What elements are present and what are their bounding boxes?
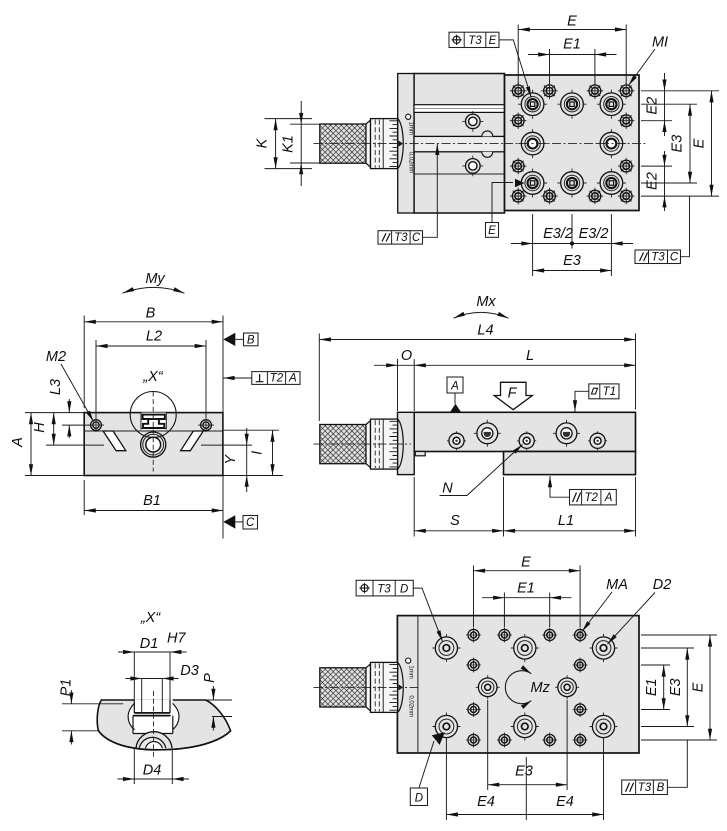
front view: gib lines (84, 444, 223, 446)
bottom view: small holes row3 (466, 702, 588, 717)
svg-text:E1: E1 (563, 37, 581, 53)
svg-text:„X“: „X“ (140, 610, 162, 626)
top view plate: big hole row3 col2 (558, 169, 587, 198)
bottom view: flange line (417, 616, 419, 753)
label M2 + leader (46, 349, 94, 422)
dimension L1 (504, 477, 636, 537)
label MA + leader (582, 577, 628, 632)
svg-text:E: E (488, 225, 496, 237)
dimension B (84, 305, 223, 538)
bottom view: small holes row2 (466, 658, 588, 673)
feature frame parallel T2 A + leader (550, 476, 616, 505)
label N + leader (440, 445, 523, 497)
bottom view: small holes row4 (466, 733, 588, 748)
dimension E (bottom view right) (691, 635, 711, 740)
svg-text:C: C (670, 252, 679, 264)
svg-text:A: A (10, 437, 26, 448)
dimension E (bottom view top) (474, 555, 581, 628)
dimension E (top view right) (692, 91, 712, 196)
svg-text:Y: Y (223, 454, 239, 465)
dimension B1 (84, 480, 223, 515)
svg-text:T3: T3 (377, 583, 391, 595)
svg-text:B: B (146, 305, 156, 321)
svg-text:My: My (145, 271, 165, 287)
svg-text:E3: E3 (563, 253, 581, 269)
side view: step block (415, 452, 425, 456)
front view: hole M2 left (88, 418, 104, 432)
svg-text:K1: K1 (281, 135, 297, 153)
detail X: nut body (97, 700, 230, 750)
svg-text:E: E (521, 555, 531, 571)
detail X: spring arch (99, 731, 231, 750)
svg-text:E2: E2 (645, 172, 661, 190)
top view plate: big hole mid right (597, 129, 626, 158)
svg-text:N: N (442, 481, 453, 497)
svg-text:E3/2: E3/2 (579, 226, 609, 242)
side view: mounting flange (398, 412, 415, 474)
svg-text:E3: E3 (670, 135, 686, 153)
svg-text:E3/2: E3/2 (543, 226, 573, 242)
svg-text:C: C (246, 517, 255, 529)
datum flag C (223, 515, 257, 529)
side view: table slab (414, 412, 635, 451)
svg-text:E: E (691, 682, 707, 692)
top view plate: big hole row3 col3 (597, 169, 626, 198)
front view: dovetail top line (84, 430, 223, 432)
top view: stage body (414, 74, 505, 214)
dimension H (32, 413, 84, 446)
side view: big holes (474, 420, 580, 447)
svg-text:E1: E1 (517, 581, 535, 597)
svg-text:T3: T3 (394, 232, 408, 244)
dimension E3 (top view right) (670, 104, 691, 183)
dimension E3 (bottom view bottom) (488, 700, 567, 790)
top view plate: big hole row3 col1 (518, 169, 547, 198)
detail X: centre line (153, 691, 155, 758)
top view: body hole lower (462, 156, 483, 177)
top view plate: small holes row4 (510, 188, 635, 205)
svg-text:S: S (450, 513, 460, 529)
label MI + leader (629, 35, 669, 86)
svg-text:E3: E3 (668, 678, 684, 696)
bottom view: big holes row top (432, 634, 617, 662)
svg-text:Mx: Mx (476, 294, 496, 310)
svg-text:F: F (508, 386, 518, 402)
side view: micrometer cap (398, 419, 404, 469)
svg-text:I: I (250, 451, 266, 455)
datum target E box + leader (486, 179, 525, 238)
top view plate: big hole row1 col3 (597, 90, 626, 119)
feature frame position T3 E (449, 32, 531, 97)
top view: guide slot (414, 105, 505, 113)
dimension P (202, 673, 232, 731)
side view: base slab (504, 452, 636, 475)
svg-text:P: P (202, 673, 218, 683)
label X (front view) (142, 369, 164, 385)
svg-text:K: K (255, 137, 271, 148)
svg-text:L: L (526, 348, 534, 364)
svg-text:P1: P1 (59, 679, 75, 697)
svg-text:B1: B1 (143, 493, 161, 509)
svg-text:T2: T2 (270, 373, 284, 385)
side view: micrometer (320, 419, 398, 469)
svg-text:M2: M2 (46, 349, 66, 365)
label My + rotation arc (123, 271, 185, 293)
svg-text:D1: D1 (140, 636, 159, 652)
feature frame position T3 D + leader (356, 580, 442, 641)
top view: micrometer sleeve detail (398, 114, 414, 173)
svg-text:H7: H7 (167, 631, 186, 647)
dimension E2 upper (top view right) (645, 73, 665, 136)
label Mz + rotation arrow (505, 671, 550, 704)
bottom view: micrometer sleeve detail (398, 658, 414, 717)
dimension D1 H7 (118, 631, 187, 701)
dimension E4 E4 (bottom view bottom) (446, 739, 603, 820)
svg-text:T2: T2 (584, 492, 598, 504)
svg-text:L2: L2 (146, 329, 162, 345)
front view: dovetail notch right (181, 431, 204, 451)
front view: dovetail notch left (103, 431, 126, 451)
svg-text:L1: L1 (558, 513, 574, 529)
label D2 + leader (608, 577, 672, 644)
svg-text:E1: E1 (644, 678, 660, 696)
top view: shaft nut bumps (482, 131, 493, 157)
top view plate: small holes row2 (510, 112, 635, 129)
svg-text:D: D (415, 793, 423, 805)
dimension E3 (below plate) (533, 253, 612, 271)
bottom view: small holes row1 (466, 628, 588, 643)
front view: body block (84, 413, 223, 476)
side view: centre line (314, 443, 412, 445)
dimension E (top) (518, 14, 626, 85)
bottom view: big holes row bottom (432, 713, 617, 741)
datum flag B (223, 333, 258, 347)
top view plate: small holes row1 (510, 83, 635, 100)
datum flag A (447, 377, 463, 412)
dimension I (223, 430, 279, 475)
svg-text:E: E (692, 138, 708, 148)
dimension E1 (top) (528, 37, 617, 85)
dimension E3/2 E3/2 (below plate) (511, 214, 633, 276)
top view plate: big hole mid left (518, 129, 547, 158)
right side extension lines (bottom view) (641, 635, 717, 740)
svg-text:D: D (400, 583, 408, 595)
svg-text:T3: T3 (651, 252, 665, 264)
svg-text:E3: E3 (515, 764, 533, 780)
bottom view: medium holes (476, 675, 579, 699)
dimension L3 (48, 379, 91, 438)
svg-text:E2: E2 (645, 97, 661, 115)
front view: detail circle X (130, 392, 176, 438)
svg-text:A: A (288, 373, 297, 385)
dimension P1 (59, 679, 124, 745)
dimension L4 (319, 323, 635, 422)
svg-text:Mz: Mz (531, 680, 551, 696)
top view: centre line (left part) (314, 143, 505, 145)
svg-text:C: C (412, 232, 421, 244)
dimension E1 (bottom view right) (644, 665, 664, 710)
label X (detail) (140, 610, 162, 626)
svg-text:D2: D2 (653, 577, 672, 593)
dimension E2 lower (top view right) (645, 151, 665, 211)
detail X: T-slot cavity (128, 699, 179, 733)
top view: mounting flange band (398, 74, 414, 214)
dimension O (374, 348, 414, 411)
svg-text:E: E (489, 35, 497, 47)
dimension K (255, 119, 313, 169)
svg-text:MI: MI (652, 35, 668, 51)
dimension L2 (96, 329, 206, 419)
svg-text:E4: E4 (477, 794, 495, 810)
front view: vertical centre line (152, 392, 154, 472)
top view: micrometer (320, 119, 398, 169)
label Mx + rotation arc (454, 294, 509, 318)
svg-text:E4: E4 (556, 794, 574, 810)
dimension D3 (126, 663, 199, 712)
top view plate: small holes row3 (510, 158, 635, 175)
front view: T-slot neck (141, 413, 166, 430)
dimension Y (223, 428, 283, 492)
dimension D4 (118, 748, 190, 784)
top view: body hole upper (462, 111, 483, 132)
feature frame parallel T3 C (right) (635, 196, 690, 263)
dimension E1 (bottom view top) (482, 581, 572, 628)
svg-text:MA: MA (606, 577, 628, 593)
bottom view: centre line (314, 686, 421, 688)
svg-text:T3: T3 (638, 782, 652, 794)
svg-text:A: A (450, 381, 459, 393)
datum target D box + leader (410, 732, 445, 805)
svg-text:B: B (657, 782, 665, 794)
svg-text:T1: T1 (603, 386, 616, 398)
bottom view: body (397, 616, 639, 753)
dimension A (10, 413, 84, 476)
top view plate: big hole row1 col2 (558, 90, 587, 119)
right side extension lines (top view) (641, 91, 719, 196)
top view: centre line (through plate) (504, 143, 648, 145)
svg-text:D4: D4 (143, 763, 162, 779)
svg-text:H: H (32, 422, 48, 433)
front view: centre screw hole (141, 432, 166, 457)
dimension E3 (bottom view right) (668, 648, 687, 727)
top view: body seam line (414, 173, 505, 175)
svg-text:D3: D3 (180, 663, 199, 679)
svg-text:A: A (604, 492, 613, 504)
side view: small holes (447, 431, 607, 450)
top view: top plate (505, 75, 640, 211)
force arrow F (494, 382, 532, 409)
svg-text:T3: T3 (468, 35, 482, 47)
feature frame parallel T3 C (left) + leader (378, 144, 437, 244)
dimension S (414, 477, 503, 537)
bottom view: micrometer (320, 662, 398, 712)
front view: hole right (198, 418, 214, 432)
svg-text:„X“: „X“ (142, 369, 164, 385)
svg-text:E: E (567, 14, 577, 30)
dimension K1 (281, 101, 321, 186)
top view plate: big hole row1 col1 (518, 90, 547, 119)
svg-text:B: B (247, 334, 255, 346)
feature frame parallel T3 B + leader (622, 740, 688, 795)
front view: T-nut profile (bold) (143, 415, 165, 428)
svg-text:L4: L4 (477, 323, 493, 339)
feature frame perpendicular T2 A + leader (223, 372, 300, 385)
svg-text:O: O (401, 348, 412, 364)
top view: lead screw shaft (414, 136, 505, 151)
feature frame flatness T1 + leader (575, 384, 619, 412)
svg-text:L3: L3 (48, 379, 64, 395)
dimension L (414, 348, 635, 366)
